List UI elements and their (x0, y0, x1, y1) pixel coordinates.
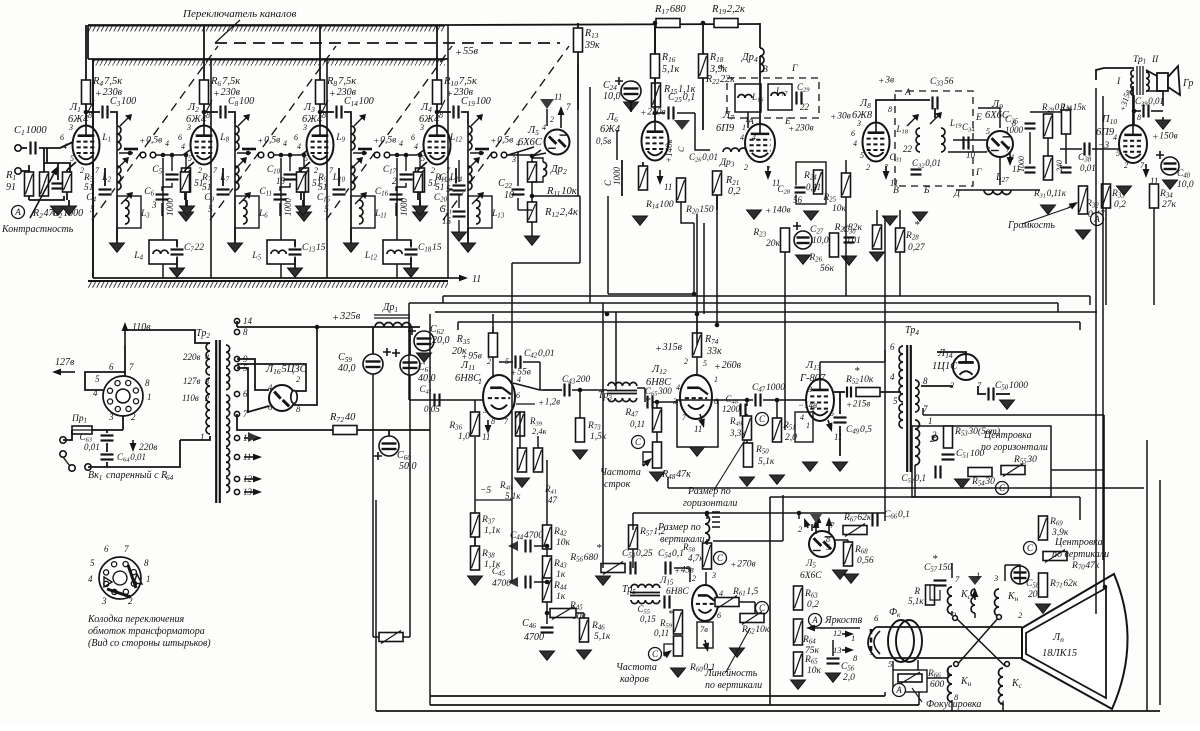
svg-text:127в: 127в (55, 357, 75, 368)
leader (206, 100, 212, 112)
wire to C65 (644, 388, 646, 402)
resistor R31 (1044, 156, 1053, 180)
resistor cathode 51 (297, 172, 306, 192)
svg-text:+ 0,5в: + 0,5в (139, 135, 162, 147)
resistor R30 15k (1062, 110, 1071, 134)
trimmer arrow top (120, 116, 130, 126)
resistor R47 0,11 (653, 408, 662, 432)
svg-text:по вертикали: по вертикали (705, 680, 762, 691)
svg-text:С: С (759, 414, 766, 424)
svg-text:II: II (1151, 55, 1159, 65)
ground cathode (296, 206, 311, 215)
svg-text:5: 5 (826, 543, 830, 552)
svg-text:2: 2 (744, 163, 748, 172)
svg-text:5: 5 (830, 409, 834, 418)
CRT base socket (868, 627, 876, 658)
wire C49 bottom (839, 426, 841, 456)
svg-text:40,0: 40,0 (418, 373, 436, 384)
wire L box bottom (162, 264, 164, 278)
capacitor C57 150 (934, 579, 947, 588)
inductor L11 boxed (351, 196, 375, 228)
svg-text:1000: 1000 (399, 198, 409, 217)
wire centering to frame (1051, 469, 1104, 471)
svg-text:+ 215в: + 215в (846, 398, 870, 410)
svg-text:4700: 4700 (524, 632, 544, 643)
capacitor C1 (29, 142, 38, 155)
resistor R34 27k (1150, 184, 1159, 208)
fuse Pr1 (72, 426, 92, 434)
circle C R58 (714, 552, 727, 565)
wire (176, 258, 178, 268)
ground R68 (844, 574, 859, 583)
svg-text:Б: Б (923, 186, 930, 196)
wire det out (956, 189, 1040, 191)
wire sync feed (511, 546, 513, 582)
capacitor C46 4700 (541, 626, 554, 635)
svg-text:+ 230в: + 230в (788, 123, 814, 135)
arrow 127v (61, 371, 75, 373)
svg-text:А: А (904, 88, 911, 98)
capacitor C11 (274, 193, 287, 202)
trimmer arrow bot (472, 194, 482, 204)
wire anode supply (436, 25, 438, 125)
cathode circuit (418, 162, 427, 170)
transformer Tr6 vertical output (705, 515, 710, 542)
resistor R69 3,9k (1039, 516, 1048, 540)
wire drop 608 (607, 196, 609, 294)
capacitor C7 22 (171, 248, 184, 257)
wire pin8 (921, 385, 953, 387)
inductor L2 (117, 166, 121, 190)
wire L12 out (715, 399, 753, 401)
wire drop R51 (784, 252, 786, 430)
choke Dr2 (543, 162, 547, 176)
wire heater drop (372, 500, 374, 637)
svg-text:15: 15 (442, 216, 452, 226)
svg-text:Центровка: Центровка (983, 430, 1032, 441)
ground centering (955, 479, 970, 488)
wire (21, 147, 27, 149)
socket link bars (128, 565, 136, 588)
wire to C43 (543, 389, 562, 391)
svg-text:6: 6 (178, 133, 182, 142)
leader (322, 100, 328, 112)
circle C kadr (649, 648, 662, 661)
svg-text:Колодка переключения: Колодка переключения (87, 614, 185, 625)
svg-text:1Ц1С: 1Ц1С (932, 361, 958, 372)
wire R28 down (899, 252, 901, 296)
resistor R56 680 (601, 564, 625, 573)
cathode circuit (185, 162, 194, 170)
svg-text:5: 5 (703, 359, 707, 368)
wire anode to C25 (655, 112, 665, 114)
svg-text:2: 2 (131, 412, 136, 422)
wire up to bus (408, 310, 410, 400)
svg-text:12: 12 (833, 628, 842, 638)
resistor R25 10k (842, 173, 851, 197)
svg-text:51: 51 (84, 183, 94, 193)
resistor R58 4,7k (703, 543, 712, 569)
svg-text:5,1к: 5,1к (908, 596, 924, 606)
svg-text:20к: 20к (766, 239, 781, 249)
wire primary bottom (180, 436, 210, 440)
svg-text:4: 4 (752, 133, 756, 142)
wire (978, 386, 986, 394)
resistor R42 10k (543, 525, 552, 549)
tube L13 Г-807 (806, 379, 834, 421)
svg-text:1000: 1000 (612, 167, 622, 186)
wire L box bottom (280, 264, 282, 278)
inductor L9 (351, 126, 355, 150)
node A circle (12, 206, 25, 219)
capacitor C42 0,01 (514, 356, 523, 369)
wire drop R56 (602, 303, 604, 568)
wire L7 anode (759, 78, 761, 124)
svg-text:обмоток трансформатора: обмоток трансформатора (88, 626, 205, 637)
resistor R20 150 (677, 178, 686, 202)
svg-text:4: 4 (542, 123, 546, 132)
arrow freq wiper (643, 464, 645, 466)
svg-text:2: 2 (932, 430, 937, 440)
wire tie (475, 499, 512, 501)
wire (300, 192, 302, 200)
resistor R38 1,1k (471, 546, 480, 570)
svg-text:Яркость: Яркость (824, 615, 863, 626)
svg-text:+ 45в: + 45в (674, 564, 694, 576)
svg-text:Линейность: Линейность (704, 668, 758, 679)
wire anode1 (237, 359, 269, 390)
wire frame left 2 (429, 314, 431, 705)
resistor R66 600 (898, 674, 922, 682)
wire to C (437, 111, 451, 113)
capacitor C20 5 (458, 160, 460, 182)
resistor R55 30 (1001, 466, 1025, 475)
wire C6 down (279, 203, 281, 216)
cathode circuit (67, 162, 76, 170)
svg-text:10,0: 10,0 (1177, 180, 1194, 190)
wire pin8 to +325 (294, 327, 317, 405)
resistor cathode 51 (414, 172, 423, 192)
svg-text:R17 680: R17 680 (654, 4, 686, 16)
wire (294, 240, 296, 246)
svg-text:3: 3 (856, 119, 861, 128)
wire R34 down (1153, 208, 1155, 305)
circle C R49 (756, 413, 769, 426)
wire frame right 2 (1146, 440, 1148, 711)
svg-text:+ 0,5в: + 0,5в (490, 135, 513, 147)
tube L12 6Н8С (680, 375, 712, 419)
wire C6 down (161, 203, 163, 216)
svg-text:1200: 1200 (722, 404, 741, 414)
wire to Dr3 (695, 113, 710, 150)
capacitor C56 2,0 (827, 657, 840, 666)
svg-text:1: 1 (928, 416, 933, 426)
capacitor C35 1000 (1025, 122, 1036, 131)
svg-text:C44 4700: C44 4700 (510, 531, 543, 542)
wire bus y312 (435, 311, 1097, 313)
ground linearity (730, 648, 745, 657)
arrow volume wiper (1068, 207, 1070, 208)
resistor R2 470 (40, 172, 49, 196)
svg-text:4: 4 (165, 139, 169, 148)
wire (92, 429, 107, 431)
capacitor C15 (333, 188, 346, 197)
svg-text:Г: Г (975, 168, 982, 178)
wire C42 right (523, 361, 540, 363)
wire C5 top (405, 155, 407, 171)
resistor R12 2,4k (528, 202, 537, 222)
resistor R41 47 (534, 448, 543, 472)
wire (104, 168, 106, 186)
wire R30-C37 (1065, 134, 1067, 164)
wire (28, 196, 30, 200)
svg-text:0,05: 0,05 (424, 404, 440, 414)
wire pin6 to box (917, 660, 919, 670)
resistor R10 7,5k (433, 80, 442, 104)
terminal A input (15, 168, 21, 174)
svg-text:3: 3 (151, 200, 157, 210)
wire drop x1104 (1103, 415, 1105, 586)
wire 110 top (125, 330, 210, 343)
svg-text:4: 4 (719, 589, 723, 598)
svg-text:0,2: 0,2 (807, 600, 819, 610)
svg-text:56: 56 (793, 195, 803, 205)
wire contacts to next grid (507, 154, 534, 156)
svg-text:4: 4 (63, 142, 67, 151)
ground L8 (883, 216, 898, 225)
svg-text:0,2: 0,2 (728, 186, 741, 197)
trimmer arrow mid (468, 159, 478, 169)
svg-text:220в: 220в (139, 443, 157, 453)
speaker Gr (1157, 73, 1168, 91)
svg-text:3: 3 (807, 385, 812, 394)
inductor L12 bottom (383, 240, 411, 264)
wire (996, 393, 1010, 395)
svg-text:0,01: 0,01 (84, 442, 100, 452)
wire to L13 grid (763, 399, 806, 401)
ground L13 (803, 462, 818, 471)
box focus (893, 670, 927, 692)
svg-text:64: 64 (166, 474, 174, 482)
capacitor C32 0,01 (911, 168, 922, 177)
wire frame left (375, 500, 377, 711)
wire (57, 163, 59, 180)
wire R5 top (303, 155, 305, 168)
svg-text:4: 4 (283, 139, 287, 148)
resistor R74 33k (693, 333, 702, 357)
wire anode top (937, 352, 966, 354)
shield band top (88, 26, 445, 32)
svg-text:R67 62к: R67 62к (843, 513, 872, 524)
resistor R64 75k (794, 619, 803, 645)
wire R28 top (899, 210, 901, 228)
svg-text:10,0: 10,0 (812, 236, 829, 246)
svg-text:C57 150: C57 150 (924, 563, 952, 574)
trimmer arrow bot (355, 194, 365, 204)
wire drop Tr3 (615, 312, 617, 390)
wire frame bottom 0 (430, 695, 885, 697)
resistor R32 0,47 volume (1079, 186, 1088, 214)
wire (222, 168, 224, 186)
wire bottom tie (29, 196, 64, 200)
resistor R54 30 (968, 468, 992, 477)
svg-text:4,7к: 4,7к (688, 553, 704, 563)
capacitor C30 0,01 (844, 236, 855, 245)
transformer Tr3 (608, 382, 637, 386)
ground coil column (344, 243, 359, 252)
resistor R27 82k (873, 225, 882, 249)
svg-text:2,0: 2,0 (843, 673, 855, 683)
trimmer arrow top (354, 116, 364, 126)
deflection coil Ks top (948, 587, 953, 614)
resistor R51 2,0 (773, 418, 782, 442)
svg-text:7: 7 (566, 102, 571, 112)
svg-text:8: 8 (923, 376, 928, 386)
wire C5 to C6 (162, 183, 172, 191)
wire xfmr to R58 (706, 539, 708, 545)
trimmer arrow mid (235, 159, 245, 169)
capacitor C13 15 (289, 248, 302, 257)
ground R51 (770, 475, 785, 484)
wire C49 top (839, 392, 841, 414)
capacitor C21 15 (453, 210, 466, 219)
svg-text:40,0: 40,0 (338, 363, 356, 374)
wire I down (1133, 95, 1135, 111)
ground R48 (650, 472, 665, 481)
wire C35-C36 (1029, 132, 1031, 164)
svg-text:3,3к: 3,3к (729, 428, 746, 438)
svg-text:5: 5 (1116, 149, 1120, 158)
wire R5 top (185, 155, 187, 168)
svg-text:C19 100: C19 100 (461, 96, 491, 108)
wire to C (320, 111, 334, 113)
wire video to sync (511, 263, 513, 546)
dashed switch bus (215, 42, 560, 44)
wire L8 plate to det (876, 100, 930, 122)
svg-text:C1 1000: C1 1000 (14, 125, 47, 137)
wire C6 down (395, 203, 397, 216)
svg-text:C8 100: C8 100 (228, 96, 254, 108)
svg-text:+ 0,5в: + 0,5в (257, 135, 280, 147)
svg-text:Е: Е (975, 113, 982, 123)
svg-text:В: В (762, 65, 768, 75)
svg-text:22: 22 (903, 144, 913, 154)
wire R74 top (696, 314, 698, 333)
wire to coils (344, 112, 351, 124)
svg-text:6: 6 (890, 342, 895, 352)
tube L8 6Ж8 (863, 123, 890, 162)
capacitor C54 0,1 (664, 562, 673, 575)
svg-text:C53 0,25: C53 0,25 (622, 549, 653, 560)
ground R73 (573, 450, 588, 459)
svg-text:6П9: 6П9 (716, 123, 735, 134)
svg-text:А: А (895, 685, 902, 695)
wire stage left (92, 59, 94, 278)
ground L10 cath (1117, 186, 1132, 195)
choke Dr1 (375, 323, 411, 328)
capacitor C28 56 (795, 186, 806, 195)
svg-text:1: 1 (806, 421, 810, 430)
resistor R68 0,56 (844, 542, 853, 566)
wire R29-R31 (1047, 132, 1049, 162)
svg-text:+ 150в: + 150в (1152, 131, 1178, 143)
wire C65 to L12 grid (653, 401, 678, 403)
svg-text:5: 5 (90, 558, 95, 568)
wire C61 (409, 327, 411, 355)
ground interstage (413, 212, 428, 221)
wire left edge (87, 25, 89, 59)
wire R39 (519, 412, 521, 448)
deflection coil Kn top (995, 589, 1000, 616)
svg-text:+ 55в: + 55в (455, 46, 478, 59)
svg-text:2: 2 (692, 574, 696, 583)
switch contacts (358, 148, 372, 151)
wire C59 (372, 327, 374, 354)
R13 drop wires (577, 64, 579, 196)
svg-text:C42 0,01: C42 0,01 (524, 349, 555, 360)
wire L16 to A (747, 112, 749, 128)
deflection connections (951, 563, 953, 578)
svg-text:6: 6 (411, 133, 415, 142)
svg-text:5: 5 (70, 154, 74, 163)
arrow 11 (448, 277, 459, 279)
dashed box ratio detector (895, 91, 973, 186)
inductor L3 boxed (117, 196, 141, 228)
svg-text:0,01: 0,01 (1080, 163, 1096, 173)
svg-text:6Н8С: 6Н8С (646, 377, 672, 388)
svg-text:0,15: 0,15 (640, 614, 656, 624)
wire bus y497 (770, 496, 1080, 498)
resistor R62 linearity (740, 614, 764, 623)
capacitor C52 0,1 (934, 466, 943, 479)
wire L box bottom (396, 264, 398, 278)
winding secondary (226, 448, 230, 462)
svg-text:*: * (596, 542, 602, 554)
winding Tr1 secondary (1146, 72, 1149, 91)
wire to pin3 (948, 151, 987, 153)
svg-text:8: 8 (1137, 113, 1141, 122)
wire to L10 anode (1133, 111, 1135, 126)
ground R24 (804, 211, 819, 220)
ground R12 (525, 236, 540, 245)
svg-text:0,11: 0,11 (806, 182, 821, 192)
wire L box top (162, 158, 164, 240)
deflection coil Ks bottom (999, 668, 1004, 704)
arrow heater (244, 491, 253, 493)
svg-text:C26 0,01: C26 0,01 (689, 152, 718, 164)
wire R58 tap (713, 540, 783, 542)
svg-text:3: 3 (419, 123, 424, 132)
sync integrator (508, 541, 518, 551)
wire to coils (228, 112, 235, 124)
winding secondary (226, 432, 230, 446)
ground C50 (1000, 400, 1015, 409)
svg-text:1к: 1к (556, 592, 566, 602)
resistor R21 0,2 (713, 171, 722, 195)
svg-text:8: 8 (144, 558, 149, 568)
svg-text:*: * (932, 553, 938, 565)
circle C (632, 436, 645, 449)
svg-text:+ 230в: + 230в (446, 87, 474, 100)
svg-text:1: 1 (147, 392, 152, 402)
wire bus y296 (443, 295, 1090, 297)
capacitor C4 (99, 188, 112, 197)
svg-text:C39 0,01: C39 0,01 (1135, 96, 1164, 108)
svg-text:C7 22: C7 22 (184, 243, 204, 254)
wire frame bottom 1 (430, 704, 919, 706)
wire R25 down (845, 197, 847, 296)
anode cap L16 (291, 391, 297, 404)
